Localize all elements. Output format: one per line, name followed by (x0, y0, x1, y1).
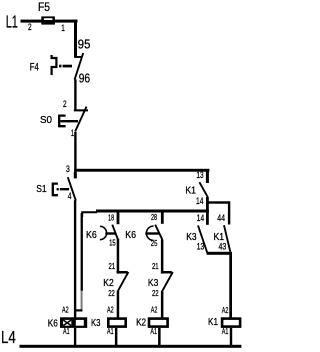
control rail thick segment (96, 210, 209, 213)
timer contact K6 15-18 link (105, 232, 115, 234)
contact K1 13-14 holding stub top (206, 169, 209, 183)
svg-text:14: 14 (197, 213, 204, 224)
svg-text:3: 3 (66, 164, 70, 175)
wire contact K6 15 down to contact K2 (117, 239, 120, 274)
svg-text:K3: K3 (186, 231, 197, 243)
svg-text:F5: F5 (38, 0, 50, 14)
svg-text:21: 21 (152, 261, 159, 271)
svg-text:15: 15 (109, 238, 116, 248)
coil K1 (222, 319, 240, 327)
wire left corner down gray (81, 291, 83, 310)
interlock contact K2 21-22 blade (118, 272, 128, 291)
svg-text:14: 14 (196, 196, 203, 207)
wire F4 to S0 (74, 79, 76, 110)
svg-text:1: 1 (71, 128, 74, 139)
wire corner down to contact K1 44 (228, 201, 230, 224)
svg-text:A1: A1 (107, 326, 114, 336)
svg-text:K2: K2 (103, 277, 114, 289)
wire coil K2 to bottom rail (158, 328, 161, 346)
timer contact K6 25-28 blade (155, 225, 162, 240)
svg-text:F4: F4 (30, 61, 39, 73)
wire S1 down to coil K6 (74, 200, 76, 317)
timer contact K6 15-18 stub top (117, 212, 120, 224)
wire contact K2 down to coil K3 (117, 291, 120, 318)
svg-text:28: 28 (151, 212, 157, 222)
wire coil K3 to bottom rail (115, 328, 118, 346)
interlock contact K3 21-22 blade (162, 272, 172, 291)
control rail thin segment (82, 212, 97, 217)
svg-text:A1: A1 (63, 326, 70, 336)
svg-text:K3: K3 (148, 277, 159, 289)
svg-text:4: 4 (68, 191, 72, 202)
fuse F5 (41, 16, 55, 24)
svg-text:1: 1 (61, 23, 65, 34)
wire L1 horizontal to corner (21, 20, 78, 23)
svg-text:22: 22 (108, 288, 115, 298)
svg-text:L4: L4 (1, 327, 16, 347)
rail L4 bottom (20, 345, 242, 348)
overload contact F4 (52, 53, 84, 80)
svg-text:A2: A2 (62, 305, 69, 315)
svg-text:A2: A2 (151, 304, 158, 314)
wire S0 to node 3 (74, 132, 76, 172)
svg-text:S0: S0 (40, 114, 52, 126)
coil K6 timer (60, 317, 87, 328)
svg-text:K1: K1 (185, 185, 196, 197)
svg-text:96: 96 (79, 70, 90, 85)
timer contact K6 25-28 stub top (161, 212, 164, 224)
svg-text:18: 18 (108, 212, 114, 222)
svg-text:A1: A1 (150, 326, 157, 336)
wire merge of contacts K3 and K1 (207, 252, 232, 255)
coil K2 (149, 319, 168, 327)
svg-text:13: 13 (196, 170, 203, 181)
svg-text:K3: K3 (91, 317, 101, 329)
wire contact K3 down to coil K2 (161, 291, 164, 318)
svg-text:S1: S1 (36, 183, 47, 195)
wire down to coil K1 (229, 253, 232, 318)
svg-text:21: 21 (109, 261, 116, 271)
svg-text:2: 2 (28, 22, 32, 33)
interlock contact K3 21-22 tick (161, 271, 172, 274)
svg-text:22: 22 (152, 288, 159, 298)
wire node 14 branch right (208, 201, 230, 203)
timer contact K6 25-28 link (145, 232, 159, 234)
pushbutton S1 normally open (53, 172, 77, 201)
wire coil K6 to bottom rail (74, 328, 76, 346)
svg-text:A2: A2 (107, 304, 114, 314)
svg-text:K6: K6 (125, 229, 136, 241)
svg-text:95: 95 (78, 36, 91, 51)
contact K1 44-43 blade (224, 225, 230, 252)
contact K3 14-13 blade (198, 225, 208, 254)
wire tick joining to K6 coil (74, 309, 82, 311)
wire left corner down black (81, 213, 83, 291)
svg-text:K6: K6 (48, 317, 58, 329)
svg-text:13: 13 (197, 241, 204, 252)
contact K1 13-14 blade (199, 182, 207, 197)
timer contact K6 15-18 blade (112, 225, 117, 239)
svg-text:K2: K2 (136, 317, 146, 329)
svg-text:K1: K1 (208, 316, 218, 328)
timer contact K6 15-18 arc (100, 226, 107, 239)
svg-text:44: 44 (217, 213, 225, 224)
svg-text:L1: L1 (6, 11, 18, 31)
wire corner down to F4 (74, 20, 77, 58)
pushbutton S0 normally closed (59, 107, 88, 132)
svg-text:K6: K6 (86, 229, 97, 241)
node 3 branch wire to the right (74, 169, 209, 172)
svg-text:2: 2 (63, 99, 67, 110)
svg-text:A2: A2 (222, 305, 229, 315)
svg-text:A1: A1 (222, 326, 229, 336)
interlock contact K2 21-22 tick (117, 271, 128, 274)
wire node 14 down through rail to contact K3 (206, 197, 209, 225)
svg-text:25: 25 (151, 238, 158, 248)
wire contact K6 25 down to contact K3 (161, 240, 164, 274)
timer contact K6 25-28 arc (146, 226, 153, 240)
svg-text:43: 43 (219, 241, 227, 252)
wire coil K1 to bottom rail (230, 328, 232, 346)
coil K3 (108, 319, 125, 327)
